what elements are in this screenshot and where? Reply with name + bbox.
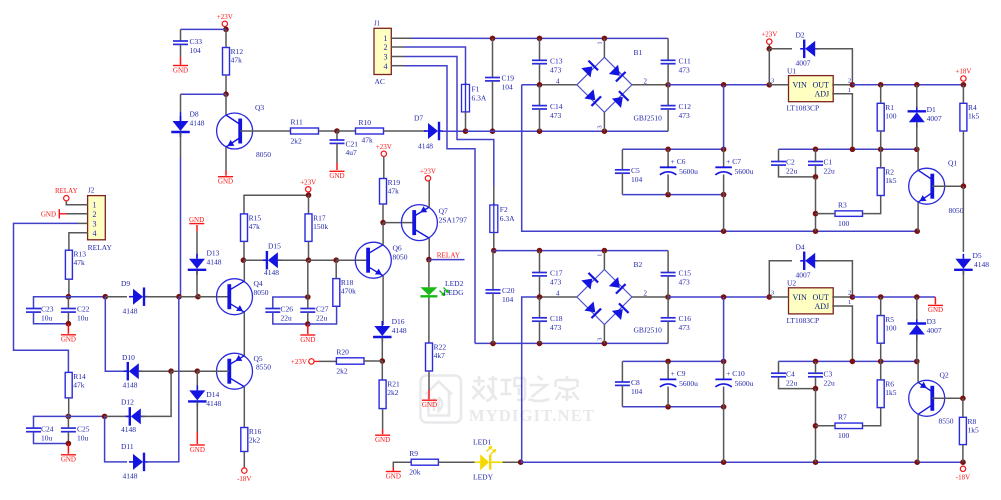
- diode D7: [424, 122, 443, 141]
- diode D11: [129, 453, 148, 472]
- wire R19 bottom: [382, 204, 384, 223]
- svg-text:Q3: Q3: [255, 103, 264, 112]
- wire C6 bottom stub: [667, 175, 669, 195]
- svg-text:Q4: Q4: [254, 279, 263, 288]
- wire rail A left: [34, 297, 106, 309]
- svg-text:C11: C11: [679, 57, 691, 66]
- junction R12/D8/Q3: [223, 91, 229, 97]
- svg-text:GND: GND: [41, 211, 56, 219]
- svg-text:GND: GND: [61, 456, 76, 464]
- svg-text:OUT: OUT: [813, 81, 830, 90]
- wire C22 gnd: [67, 324, 69, 334]
- wire RELAY to pin1: [66, 201, 87, 205]
- ground C22: [61, 335, 76, 344]
- svg-text:3: 3: [597, 125, 604, 128]
- diode D10: [124, 362, 143, 381]
- resistor R11: [291, 118, 319, 146]
- wire R9 left: [393, 462, 411, 467]
- junction OUT/D2: [850, 82, 856, 88]
- svg-text:5600u: 5600u: [735, 167, 754, 176]
- wire D16 bottom: [381, 338, 383, 362]
- wire D1 top: [916, 85, 918, 108]
- wire B1 4 run: [522, 84, 540, 86]
- wire Q4 base: [198, 296, 229, 298]
- wire C4 bottom: [779, 377, 816, 389]
- wire R17 bottom: [308, 241, 310, 260]
- wire D4 branch: [769, 261, 792, 297]
- svg-text:C18: C18: [550, 314, 563, 323]
- junction C3/C4: [813, 386, 819, 392]
- capacitor C23: [26, 305, 54, 323]
- resistor R4: [960, 103, 980, 131]
- transistor Q4: [217, 279, 253, 315]
- wire R21 gnd: [382, 429, 384, 434]
- resistor R16: [241, 427, 262, 452]
- junction bottom rail R8: [960, 459, 966, 465]
- svg-text:4148: 4148: [123, 381, 138, 390]
- wire F1 bottom: [465, 112, 467, 131]
- svg-text:C17: C17: [550, 269, 563, 278]
- svg-text:GND: GND: [173, 66, 188, 74]
- junction bottom rail C10col: [721, 459, 727, 465]
- wire C3col down: [815, 389, 817, 463]
- junction C22/C23: [66, 321, 72, 327]
- wire C8 col bottom: [621, 385, 623, 406]
- wire C21 gnd: [336, 163, 338, 170]
- wire R11 to C21: [319, 130, 338, 132]
- wire rail260 a: [243, 259, 266, 261]
- junction D9/D8col: [176, 294, 182, 300]
- junction F2 out: [491, 248, 497, 254]
- ground D14: [190, 445, 205, 454]
- junction C20 bottom: [490, 341, 496, 347]
- wire Q4 collector: [243, 260, 245, 281]
- wire C14 top: [539, 85, 541, 106]
- svg-text:10u: 10u: [77, 314, 89, 323]
- resistor R10: [356, 128, 384, 134]
- wire Q5 base: [197, 370, 229, 372]
- junction F1 out: [463, 128, 469, 134]
- wire R18 top: [335, 260, 337, 278]
- svg-text:10u: 10u: [77, 433, 89, 442]
- junction ADJ2/R6: [878, 359, 884, 365]
- wire box1 top: [622, 148, 723, 150]
- wire port to D2 node: [768, 44, 770, 49]
- diode D9: [129, 287, 148, 306]
- wire D7 out: [441, 130, 466, 132]
- wire C21 top: [336, 131, 338, 140]
- svg-text:22u: 22u: [824, 167, 836, 176]
- svg-text:U2: U2: [787, 279, 796, 288]
- svg-text:GND: GND: [375, 436, 390, 444]
- wire Q6 collector: [382, 223, 384, 245]
- power port +18V: [955, 68, 971, 82]
- svg-text:F1: F1: [472, 84, 480, 93]
- wire C33 gnd: [180, 57, 182, 65]
- svg-text:J2: J2: [88, 187, 95, 195]
- transistor Q3: [217, 113, 253, 149]
- svg-text:GBJ2510: GBJ2510: [634, 114, 663, 123]
- wire rail A mid: [179, 296, 198, 298]
- wire R15 bottom: [243, 241, 245, 260]
- bridge rectifier B1: [577, 57, 632, 112]
- junction R3 left: [813, 211, 819, 217]
- diode D13: [188, 254, 207, 275]
- svg-text:C20: C20: [502, 286, 515, 295]
- wire C25 top: [67, 416, 69, 428]
- svg-text:473: 473: [679, 278, 691, 287]
- svg-text:10u: 10u: [41, 433, 53, 442]
- wire D8 column: [180, 158, 182, 297]
- wire rail C left: [34, 416, 105, 428]
- wire Q3 emitter gnd: [225, 171, 227, 176]
- svg-text:+ C7: + C7: [726, 157, 741, 166]
- junction R7 left: [813, 423, 819, 429]
- junction rail A / D10 branch: [103, 294, 109, 300]
- wire C27 gnd: [307, 324, 309, 334]
- junction VIN1 node: [767, 82, 773, 88]
- junction bottom rail C3col: [813, 459, 819, 465]
- svg-text:C3: C3: [824, 369, 833, 378]
- junction ADJ/pin: [850, 147, 856, 153]
- wire J1 pin3 run: [404, 57, 494, 187]
- wire ADJ rail: [779, 148, 918, 150]
- wire B1 bottom stub: [603, 112, 605, 131]
- svg-text:R20: R20: [336, 348, 349, 357]
- LED LED1: [475, 446, 503, 471]
- svg-text:GND: GND: [300, 336, 315, 344]
- ic U2: [787, 279, 834, 325]
- svg-text:D16: D16: [392, 317, 405, 326]
- wire R10 to D7: [384, 130, 427, 132]
- wire R8 bottom: [962, 445, 964, 463]
- wire Q3 emitter: [225, 147, 227, 171]
- capacitor C16: [661, 314, 692, 332]
- svg-text:C23: C23: [41, 305, 54, 314]
- wire Q7 emitter: [428, 181, 430, 207]
- wire J1 pin3 stub: [391, 56, 404, 58]
- svg-text:C4: C4: [786, 369, 795, 378]
- resistor R20: [336, 348, 364, 376]
- svg-text:4007: 4007: [927, 114, 942, 123]
- junction R17/C27col: [306, 257, 312, 263]
- capacitor C7: [715, 157, 753, 176]
- svg-text:22u: 22u: [786, 167, 798, 176]
- wire U2 adj: [832, 306, 852, 361]
- power port -18V (R16): [237, 468, 251, 483]
- connector J1: [374, 20, 391, 87]
- svg-text:LT1083CP: LT1083CP: [787, 104, 820, 113]
- LED LED2: [420, 287, 449, 298]
- svg-text:2k2: 2k2: [336, 366, 348, 375]
- wire C19 col top: [492, 38, 494, 77]
- capacitor C10: [715, 369, 753, 388]
- junction C10 bottom: [721, 404, 727, 410]
- svg-text:GND: GND: [190, 446, 205, 454]
- wire B1 right stub: [632, 84, 668, 86]
- junction D13 node: [195, 294, 201, 300]
- wire B1 left stub: [540, 84, 577, 86]
- wire F2 top stub: [493, 186, 495, 205]
- svg-text:5600u: 5600u: [735, 379, 754, 388]
- wire D14 top: [196, 371, 198, 390]
- svg-text:1: 1: [597, 41, 604, 44]
- wire R14 bottom: [68, 398, 70, 417]
- junction D2 left: [767, 46, 773, 52]
- diode D1: [908, 107, 927, 127]
- svg-text:LEDG: LEDG: [444, 288, 465, 297]
- svg-text:R3: R3: [838, 200, 847, 209]
- wire +V down to box1: [723, 85, 725, 150]
- junction C10 top: [721, 359, 727, 365]
- wire C10 top stub: [723, 361, 725, 379]
- svg-text:1k5: 1k5: [968, 425, 980, 434]
- wire R22 bottom: [428, 371, 430, 390]
- wire R20 to junction: [364, 360, 382, 362]
- diode D16: [373, 321, 392, 342]
- svg-text:473: 473: [550, 111, 562, 120]
- wire D13 bottom: [196, 271, 198, 297]
- svg-text:47k: 47k: [231, 56, 243, 65]
- svg-text:GND: GND: [329, 172, 344, 180]
- svg-text:D7: D7: [414, 114, 423, 123]
- svg-text:22u: 22u: [824, 378, 836, 387]
- svg-text:2k2: 2k2: [291, 136, 303, 145]
- svg-text:+23V: +23V: [217, 13, 233, 21]
- svg-text:1k5: 1k5: [885, 176, 897, 185]
- wire +23V to R20: [319, 360, 336, 362]
- svg-text:C27: C27: [316, 305, 329, 314]
- wire R12 bottom: [225, 75, 227, 94]
- wire D13 top stub: [196, 232, 198, 259]
- wire OUT rail: [852, 84, 963, 86]
- wire C1 top: [815, 149, 817, 161]
- wire +23V stub: [224, 27, 226, 30]
- svg-text:2k2: 2k2: [387, 388, 399, 397]
- junction +23V node: [223, 27, 229, 33]
- wire R3 to R2: [863, 196, 881, 214]
- junction bottom rail LED1: [518, 459, 524, 465]
- svg-text:100: 100: [885, 111, 897, 120]
- svg-text:RELAY: RELAY: [88, 243, 113, 252]
- capacitor C5: [615, 166, 643, 184]
- wire C1col down: [815, 177, 817, 231]
- wire C7 bottom stub: [723, 175, 725, 195]
- svg-text:D1: D1: [927, 105, 936, 114]
- wire R16 bottom: [243, 452, 245, 468]
- junction Q2 base/R8: [960, 396, 966, 402]
- svg-text:C26: C26: [281, 305, 294, 314]
- diode D2: [800, 40, 819, 59]
- capacitor C4: [771, 369, 798, 387]
- wire J1 pin2 stub: [391, 46, 404, 48]
- junction C13 top: [537, 36, 543, 42]
- resistor R19: [380, 178, 401, 204]
- wire B2 top stub: [603, 251, 605, 270]
- wire D9 out: [146, 296, 180, 298]
- svg-text:473: 473: [679, 323, 691, 332]
- svg-text:4148: 4148: [123, 472, 138, 481]
- svg-text:GND: GND: [422, 401, 437, 409]
- svg-text:3: 3: [771, 290, 774, 297]
- svg-text:OUT: OUT: [813, 293, 830, 302]
- svg-text:C24: C24: [41, 424, 54, 433]
- junction C18 bottom: [537, 341, 543, 347]
- junction C26/C27: [305, 321, 311, 327]
- svg-text:20k: 20k: [409, 468, 421, 477]
- resistor R14: [65, 372, 86, 398]
- svg-text:104: 104: [631, 387, 643, 396]
- svg-text:8050: 8050: [393, 253, 408, 262]
- capacitor C6: [660, 157, 698, 176]
- junction RELAY node: [426, 257, 432, 263]
- wire B2 out rail: [668, 296, 769, 298]
- svg-text:+ C9: + C9: [671, 369, 686, 378]
- wire +V2 down to box2: [723, 297, 725, 361]
- junction mid rail Q1e: [914, 228, 920, 234]
- wire D3 top: [916, 297, 918, 320]
- svg-text:10u: 10u: [41, 314, 53, 323]
- svg-text:+18V: +18V: [955, 68, 971, 76]
- wire D8 bottom stub: [180, 133, 182, 159]
- wire J2 pin3 stub: [78, 222, 88, 224]
- power port +23V (Q7): [420, 167, 436, 181]
- capacitor C15: [661, 269, 692, 287]
- svg-text:C25: C25: [77, 424, 90, 433]
- ground C33: [173, 66, 188, 75]
- wire U2 vin: [769, 296, 788, 298]
- svg-text:LED1: LED1: [473, 437, 492, 446]
- resistor R17: [305, 213, 328, 241]
- junction ADJ2/C3: [813, 359, 819, 365]
- wire Q4-Q5 emitters: [243, 312, 245, 356]
- svg-text:C22: C22: [77, 305, 90, 314]
- svg-text:2SA1797: 2SA1797: [439, 216, 468, 225]
- power port +23V (Q3 bias): [217, 13, 233, 27]
- junction ADJ/D1: [914, 147, 920, 153]
- wire D10 out: [140, 370, 172, 372]
- svg-text:+ C10: + C10: [726, 369, 745, 378]
- svg-text:104: 104: [190, 46, 202, 55]
- junction B2 out / C15: [665, 294, 671, 300]
- wire U1 out: [832, 84, 852, 86]
- wire to D9: [105, 296, 127, 298]
- svg-text:C1: C1: [824, 158, 833, 167]
- junction B1 pin3: [602, 128, 608, 134]
- power port -18V (R8): [956, 466, 970, 481]
- junction R20/R21: [380, 358, 386, 364]
- power port RELAY (J2): [55, 187, 78, 201]
- junction ADJ2/pin: [850, 359, 856, 365]
- svg-text:8050: 8050: [254, 288, 269, 297]
- ground R22: [422, 400, 437, 409]
- svg-text:100: 100: [838, 219, 850, 228]
- svg-text:C21: C21: [346, 139, 359, 148]
- wire C13 bottom: [539, 64, 541, 85]
- svg-text:D10: D10: [122, 353, 135, 362]
- wire Q6 emitter: [382, 276, 384, 325]
- svg-text:C12: C12: [679, 102, 692, 111]
- svg-text:150k: 150k: [313, 222, 328, 231]
- junction C9 top: [665, 359, 671, 365]
- junction rail C / D11 branch: [102, 414, 108, 420]
- svg-text:4148: 4148: [206, 399, 221, 408]
- transistor Q6: [355, 242, 391, 278]
- svg-text:GND: GND: [928, 306, 943, 314]
- svg-text:U1: U1: [787, 66, 796, 75]
- junction Q1 base/R4: [961, 183, 967, 189]
- wire R8 top: [962, 398, 964, 417]
- svg-text:D12: D12: [121, 398, 134, 407]
- svg-text:+ C6: + C6: [671, 157, 686, 166]
- wire AC bottom rail: [466, 130, 669, 132]
- svg-text:GND: GND: [386, 472, 401, 480]
- svg-text:C16: C16: [679, 314, 692, 323]
- svg-text:Q2: Q2: [940, 371, 949, 380]
- wire C8 col top: [621, 361, 623, 382]
- resistor R8: [959, 417, 979, 445]
- resistor R9: [409, 449, 438, 477]
- svg-text:4007: 4007: [796, 59, 811, 68]
- svg-text:22u: 22u: [786, 378, 798, 387]
- wire R5 bottom: [880, 343, 882, 361]
- wire B1 top stub: [603, 38, 605, 57]
- junction C19 bottom: [490, 128, 496, 134]
- ground R21: [375, 435, 390, 444]
- wire to R10: [337, 130, 356, 132]
- svg-text:GND: GND: [218, 178, 233, 186]
- svg-text:5600u: 5600u: [679, 167, 698, 176]
- capacitor C19: [485, 74, 514, 92]
- wire J1 pin1 stub: [391, 37, 412, 39]
- wire R7 left: [816, 425, 836, 427]
- wire U2 out: [832, 296, 852, 298]
- svg-text:100: 100: [885, 324, 897, 333]
- wire Q1 collector: [917, 149, 919, 170]
- resistor R2: [877, 167, 897, 195]
- wire R12 top: [225, 29, 227, 47]
- junction B1 pin1: [602, 36, 608, 42]
- junction C13/C14: [537, 82, 543, 88]
- wire R4 bottom: [962, 131, 964, 186]
- wire C27 bottom: [307, 312, 309, 324]
- svg-text:VIN: VIN: [793, 293, 807, 302]
- wire R17 top: [308, 195, 310, 214]
- resistor R1: [877, 103, 897, 131]
- resistor R3: [835, 200, 863, 228]
- capacitor C18: [532, 314, 563, 332]
- junction +V / C7col: [721, 82, 727, 88]
- junction C7 top: [721, 147, 727, 153]
- wire R6 top: [880, 361, 882, 380]
- svg-text:1: 1: [597, 254, 604, 257]
- resistor R12: [223, 47, 244, 75]
- wire C9 top stub: [667, 361, 669, 379]
- svg-text:1: 1: [384, 34, 388, 43]
- wire C25 bottom: [67, 432, 69, 444]
- wire C27 top: [307, 297, 309, 309]
- resistor R15: [241, 213, 262, 241]
- wire U1 vin: [769, 84, 788, 86]
- junction mid rail C1col: [813, 228, 819, 234]
- svg-text:C33: C33: [190, 37, 203, 46]
- capacitor C26: [265, 305, 293, 323]
- resistor R21: [379, 380, 400, 409]
- wire F1 top stub: [465, 82, 467, 84]
- capacitor C14: [532, 102, 563, 120]
- junction ADJ/R1: [878, 147, 884, 153]
- junction OUT2/R5: [878, 294, 884, 300]
